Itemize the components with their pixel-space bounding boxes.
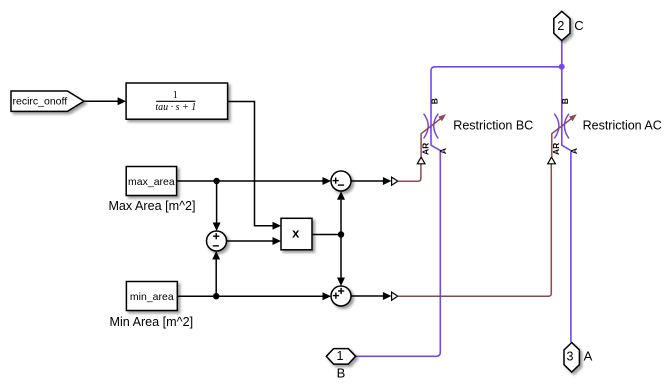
svg-text:recirc_onoff: recirc_onoff	[13, 95, 68, 107]
label Restriction AC	[583, 119, 662, 133]
wire Sum2 output to PS port	[351, 177, 391, 185]
port label A of Restriction AC	[569, 148, 579, 154]
PS input triangle bottom	[392, 292, 398, 300]
PS input triangle top	[392, 177, 398, 185]
constant block max_area	[126, 167, 176, 196]
physical signal wire Sum2 to Restriction BC AR	[398, 164, 421, 181]
label Restriction BC	[453, 119, 533, 133]
AR port triangle of Restriction AC	[548, 157, 556, 164]
port 1 hexagon B	[326, 349, 355, 365]
label Max Area [m^2]	[108, 199, 195, 213]
svg-text:A: A	[569, 148, 579, 154]
wire trunk left branch to Restriction BC down to port 1	[356, 67, 562, 357]
svg-text:AR: AR	[421, 143, 431, 155]
wire Product output with junction split to Sum2 and Sum3	[312, 191, 345, 286]
svg-text:B: B	[560, 98, 570, 104]
label Min Area [m^2]	[109, 315, 193, 329]
sum block Sum1	[207, 231, 227, 251]
sum block Sum2	[331, 171, 351, 191]
From tag recirc_onoff	[11, 91, 84, 111]
label B of port 1	[337, 366, 346, 381]
svg-text:B: B	[337, 366, 346, 381]
svg-text:2: 2	[557, 19, 564, 33]
transfer function block 1/(tau s+1)	[126, 83, 228, 119]
svg-text:min_area: min_area	[130, 291, 174, 303]
physical signal wire Sum3 to Restriction AC AR	[398, 164, 552, 296]
svg-text:A: A	[584, 349, 593, 364]
valve Restriction BC	[421, 114, 446, 157]
svg-text:C: C	[574, 18, 583, 33]
svg-text:Min Area [m^2]: Min Area [m^2]	[109, 315, 193, 329]
wire Sum1 output to Product lower input	[227, 237, 281, 245]
label C of port 2	[574, 18, 583, 33]
svg-text:AR: AR	[551, 143, 561, 155]
port label AR of Restriction AC	[551, 143, 561, 155]
wire Sum3 output to PS port	[351, 292, 391, 300]
svg-text:B: B	[430, 98, 440, 104]
svg-text:max_area: max_area	[128, 176, 175, 188]
wire junction up to Sum1 minus input	[212, 251, 220, 296]
wire min_area to Sum3	[177, 292, 331, 300]
wire Transfer Fcn to Product upper input	[228, 102, 281, 230]
junction purple node at trunk	[559, 64, 565, 70]
valve Restriction AC	[552, 114, 577, 157]
wire recirc_onoff to Transfer Fcn	[84, 97, 126, 105]
sum block Sum3	[331, 286, 351, 306]
product block x	[281, 218, 312, 250]
wire junction down to Sum1 plus input	[213, 181, 221, 231]
label A of port 3	[584, 349, 593, 364]
AR port triangle of Restriction BC	[417, 157, 425, 164]
port 2 hexagon C	[554, 11, 570, 40]
wire port2 trunk down through Restriction AC to port 3	[562, 41, 571, 343]
port label B of Restriction AC	[560, 98, 570, 104]
port label B of Restriction BC	[430, 98, 440, 104]
junction node on max_area wire	[213, 178, 219, 184]
svg-text:Restriction AC: Restriction AC	[583, 119, 662, 133]
port 3 hexagon A	[564, 343, 579, 373]
svg-text:x: x	[292, 225, 300, 240]
svg-text:A: A	[438, 148, 448, 154]
port label AR of Restriction BC	[421, 143, 431, 155]
wire max_area to Sum2	[177, 177, 331, 185]
port label A of Restriction BC	[438, 148, 448, 154]
svg-text:1: 1	[173, 90, 178, 101]
constant block min_area	[126, 282, 177, 311]
svg-text:Restriction BC: Restriction BC	[453, 119, 533, 133]
junction node on min_area wire	[213, 293, 219, 299]
svg-text:3: 3	[567, 349, 574, 363]
junction node on Product output	[338, 231, 344, 237]
svg-text:1: 1	[337, 349, 344, 363]
svg-text:Max Area [m^2]: Max Area [m^2]	[108, 199, 195, 213]
svg-text:tau · s + 1: tau · s + 1	[155, 102, 196, 113]
